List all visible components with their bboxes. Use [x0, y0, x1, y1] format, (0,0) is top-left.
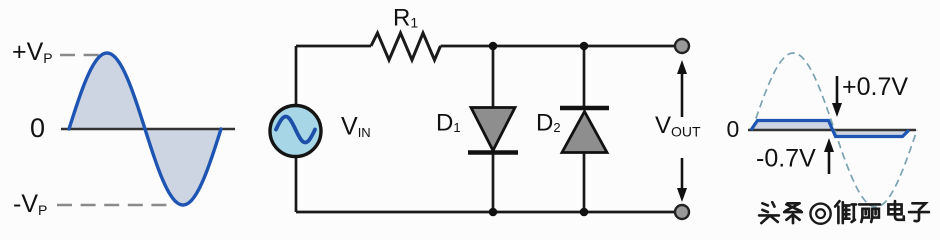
wire left vertical upper: [295, 46, 298, 106]
watermark char HENG: [835, 201, 856, 223]
+0.7V arrow shaft: [836, 76, 839, 104]
diode D1 cathode bar: [468, 150, 518, 155]
clipped output waveform: [751, 121, 909, 137]
watermark char DIAN: [888, 201, 903, 220]
input waveform fill: [69, 53, 221, 205]
+0.7V arrow head: [832, 103, 842, 117]
watermark char TOU: [759, 202, 779, 223]
wire bottom: [296, 211, 682, 214]
Vout arrow down head: [677, 188, 687, 202]
output waveform fill negative: [832, 130, 909, 137]
-0.7V arrow head: [824, 138, 834, 152]
Vout arrow down shaft: [681, 158, 684, 189]
-0.7V arrow shaft: [828, 151, 831, 174]
watermark char ZI: [909, 203, 929, 221]
diode D1 branch wire lower: [492, 153, 495, 212]
AC source V_IN body: [270, 106, 321, 157]
-Vp dashed level line: [57, 204, 167, 206]
+Vp dashed level line: [60, 54, 100, 56]
svg-text:D1: D1: [436, 110, 461, 137]
diode D1: [471, 108, 515, 151]
resistor R1: [371, 33, 441, 60]
output waveform axis: [748, 129, 916, 132]
svg-text:+VP: +VP: [12, 38, 53, 66]
svg-text:R1: R1: [393, 5, 418, 32]
svg-text:+0.7V: +0.7V: [842, 73, 908, 101]
watermark char TIAO: [784, 203, 802, 223]
diode D1 branch wire upper: [492, 46, 495, 108]
diode D2 branch wire lower: [583, 153, 586, 212]
svg-text:-VP: -VP: [13, 190, 47, 218]
node top D2 junction: [580, 42, 589, 51]
node top D1 junction: [489, 42, 498, 51]
output terminal top: [675, 39, 689, 53]
svg-text:VOUT: VOUT: [655, 112, 701, 140]
svg-text:0: 0: [30, 113, 45, 143]
AC source sine symbol: [276, 117, 315, 143]
watermark char LI: [859, 204, 880, 222]
node bottom D2 junction: [580, 208, 589, 217]
node bottom D1 junction: [489, 208, 498, 217]
dashed sine envelope: [752, 53, 917, 207]
Vout arrow up head: [677, 60, 687, 74]
input sine curve: [69, 53, 221, 205]
input waveform axis: [61, 128, 235, 131]
diode D2: [562, 112, 607, 153]
output terminal bottom: [675, 205, 689, 219]
diode D2 branch wire upper: [583, 46, 586, 108]
wire top right segment: [441, 45, 683, 48]
svg-text:D2: D2: [536, 110, 561, 137]
svg-text:-0.7V: -0.7V: [756, 145, 816, 173]
svg-text:0: 0: [727, 116, 740, 142]
Vout arrow up shaft: [681, 72, 684, 117]
wire top left segment: [296, 45, 371, 48]
svg-text:VIN: VIN: [341, 113, 371, 141]
watermark 头条@衡丽电子: [759, 201, 929, 224]
watermark at-sign: [810, 204, 830, 224]
diode D2 cathode bar: [560, 106, 609, 111]
output waveform fill positive: [751, 121, 832, 131]
wire left vertical lower: [295, 156, 298, 212]
